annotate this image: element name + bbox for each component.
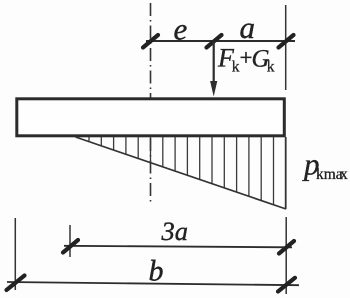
tick at right end of b [278,278,295,292]
svg-text:a: a [240,10,256,45]
extension line bottom left (footing left edge) [14,218,16,290]
tick at load application point [207,35,222,48]
pressure triangle right edge (maximum pressure ordinate) [285,137,287,209]
svg-text:k: k [267,59,275,76]
centerline (vertical dash-dot axis through load point e-offset) [150,3,152,205]
tick at left end of b [7,276,25,291]
pressure distribution hatch lines [89,137,274,205]
tick at centerline end of dimension e [143,35,158,48]
dimension line 3a (effective pressure width) [64,246,292,248]
svg-text:b: b [149,255,164,288]
extension line at pressure-zone start (3a left end) [69,225,71,257]
tick at left end of 3a [63,240,78,253]
svg-text:e: e [174,12,188,47]
pressure triangle hypotenuse (linear pressure distribution) [76,137,287,209]
svg-text:x: x [340,166,348,183]
force arrow Fk+Gk (vertical load) [213,41,215,82]
dimension line e+a [146,40,295,42]
footing (foundation slab rectangle) [17,99,285,136]
tick at right end of dimension a [279,35,294,48]
extension line (right edge, from top down to footing) [285,5,287,90]
svg-text:kma: kma [316,166,343,183]
extension line bottom right (footing right edge) [285,217,287,294]
tick at right end of 3a [279,241,294,254]
svg-text:3a: 3a [161,216,189,246]
dimension line b (footing width) [7,282,299,285]
